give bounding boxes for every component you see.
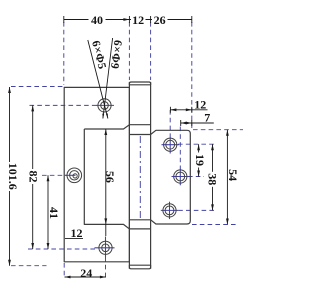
- svg-text:7: 7: [204, 111, 210, 125]
- svg-text:40: 40: [91, 13, 103, 27]
- svg-text:12: 12: [71, 226, 83, 240]
- svg-text:24: 24: [80, 266, 92, 280]
- svg-text:12: 12: [132, 13, 144, 27]
- svg-text:19: 19: [193, 154, 207, 166]
- svg-text:12: 12: [194, 98, 206, 112]
- svg-text:82: 82: [27, 171, 41, 183]
- svg-text:101.6: 101.6: [6, 163, 20, 190]
- svg-text:38: 38: [206, 173, 220, 185]
- svg-text:54: 54: [226, 169, 240, 181]
- svg-text:26: 26: [154, 13, 166, 27]
- svg-text:56: 56: [103, 171, 117, 183]
- svg-text:41: 41: [47, 207, 61, 219]
